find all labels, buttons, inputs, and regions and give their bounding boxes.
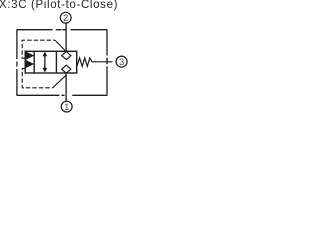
pilot line B (dashed, from port 1 to pilot triangles) — [22, 69, 53, 88]
cartridge envelope bottom edge — [17, 94, 107, 96]
spring — [77, 58, 113, 66]
port 1 line — [65, 74, 67, 102]
svg-text:3: 3 — [119, 57, 124, 67]
port 2 line — [65, 23, 67, 51]
port 2 circle — [60, 12, 71, 23]
flow/diamond cell divider — [55, 51, 57, 73]
cartridge envelope right edge — [106, 29, 108, 96]
pilot triangle 1 (solid) — [26, 52, 35, 60]
svg-text:1: 1 — [64, 102, 69, 112]
bottom diamond (seat) — [62, 65, 71, 73]
double arrow bottom head — [43, 68, 48, 73]
pilot triangle 2 (solid) — [26, 60, 35, 68]
pilot line B diagonal — [53, 75, 66, 88]
double arrow shaft — [44, 54, 45, 71]
double arrow top head — [43, 52, 48, 57]
top diamond (seat) — [62, 52, 71, 60]
svg-text:2: 2 — [63, 13, 68, 23]
cartridge envelope left edge — [16, 29, 18, 96]
pilot line A diagonal — [55, 40, 66, 51]
valve envelope box — [25, 51, 76, 73]
port 3 circle — [116, 56, 127, 67]
port 1 circle — [61, 101, 72, 112]
title text — [0, 0, 118, 11]
pilot cell divider — [33, 51, 35, 73]
cartridge envelope top edge — [17, 29, 107, 31]
pilot line A (dashed, from port 2 to pilot triangles) — [22, 40, 55, 58]
